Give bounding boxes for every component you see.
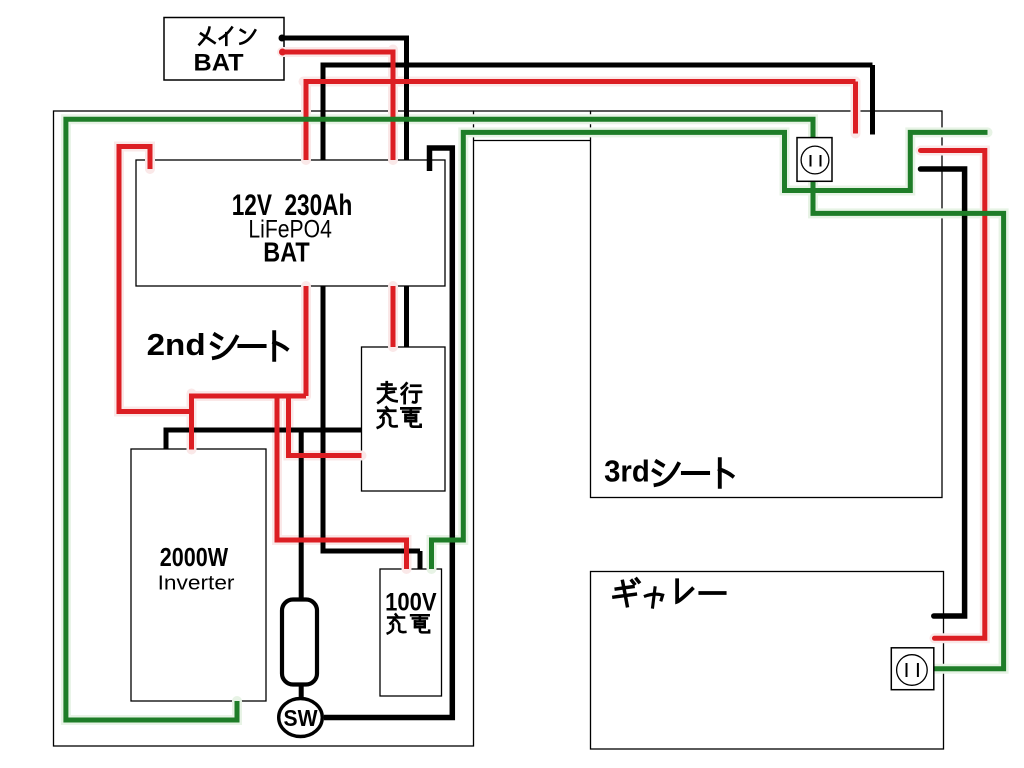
wire: fuse branch (black)	[299, 431, 304, 700]
wire: black riser above battery	[321, 65, 326, 160]
wire: red drop to DCDC charger (lower)	[391, 286, 396, 347]
wire: red feed bus from sub battery positive	[119, 82, 856, 570]
wire: red bus across roof	[304, 79, 856, 84]
wire: main BAT positive to DCDC charger (red)	[282, 50, 393, 348]
svg-text:SW: SW	[284, 705, 318, 731]
label: 100V charger (100V充電)	[385, 589, 437, 634]
12V 230Ah LiFePO4 battery box	[136, 160, 445, 286]
wire: red drop to DCDC charger	[289, 396, 362, 456]
wire: red bus to inverter	[192, 394, 307, 399]
wire: red riser above battery	[304, 82, 309, 161]
wire: red stub into 3rd seat	[853, 82, 858, 134]
label: 3rd seat (3rdシート)	[604, 454, 732, 489]
svg-text:BAT: BAT	[194, 50, 244, 77]
wire: black drop to battery box (upper)	[404, 36, 409, 161]
wire: black stub into 3rd seat	[870, 65, 875, 135]
wire: red drop to 100V charger	[277, 396, 407, 569]
label: 2000W Inverter	[158, 542, 235, 595]
fuse F1	[282, 600, 317, 685]
wire: black drop to DCDC charger (lower)	[404, 286, 409, 347]
wire: galley black feed stub	[921, 169, 965, 616]
wire: main BAT negative to DCDC charger (black)	[281, 36, 407, 348]
outlet 2 (galley)	[891, 648, 934, 690]
wire: main BAT positive horizontal run	[282, 50, 393, 55]
wire: red drop to battery box (upper)	[391, 50, 396, 161]
wire: black feed to 100V charger and 3rd-seat stub	[321, 65, 873, 569]
label: 2nd seat (2ndシート)	[147, 327, 287, 362]
wire: AC earth/neutral loop inverter to outlets (green)	[66, 119, 1004, 720]
wire: red riser below battery to positive bus	[304, 286, 309, 396]
wire: AC line 100V charger to outlets (green)	[432, 132, 988, 569]
wire: sub battery negative - switch - return (black)	[324, 148, 452, 718]
label: 12V 230Ah LiFePO4 BAT	[232, 189, 353, 268]
wire: black jog to 100V charger	[321, 549, 421, 554]
label: DCDC charger (走行充電)	[378, 382, 421, 427]
switch SW	[279, 699, 323, 737]
svg-text:Inverter: Inverter	[158, 571, 235, 594]
node: main BAT negative terminal	[279, 35, 286, 42]
main battery box	[164, 18, 284, 81]
wall line between rooms	[474, 110, 591, 112]
svg-text:2000W: 2000W	[160, 542, 228, 572]
room box: 2nd seat area outline	[54, 111, 474, 746]
room box: galley outline	[591, 572, 944, 750]
room box: 3rd seat area outline	[591, 111, 943, 498]
wire: inverter to DCDC charger run	[166, 430, 362, 450]
inverter box	[131, 449, 266, 701]
label: galley (ギャレー)	[614, 579, 725, 607]
wire: black entry into 100V charger	[418, 551, 423, 569]
svg-text:BAT: BAT	[263, 237, 309, 268]
svg-text:3rd: 3rd	[604, 454, 650, 489]
wire: sub battery positive hook and left drop (red)	[119, 147, 189, 412]
passage line between rooms	[474, 140, 591, 142]
wire: main BAT negative horizontal run	[281, 36, 407, 41]
node: main BAT positive terminal	[279, 49, 286, 56]
wire: inverter negative to DCDC charger (black)	[166, 430, 362, 700]
svg-text:2nd: 2nd	[147, 327, 206, 362]
outlet 1 (3rd seat)	[797, 138, 832, 182]
DC-DC charger box (soukou juuden)	[362, 347, 446, 491]
wire: galley red feed stub	[921, 151, 985, 639]
wire: black bus across roof	[321, 63, 873, 68]
label: main BAT (メイン BAT)	[194, 28, 256, 77]
wire: black riser below battery to 100V charger level	[321, 286, 326, 549]
100V charger box	[380, 569, 442, 696]
svg-text:100V: 100V	[385, 589, 437, 617]
